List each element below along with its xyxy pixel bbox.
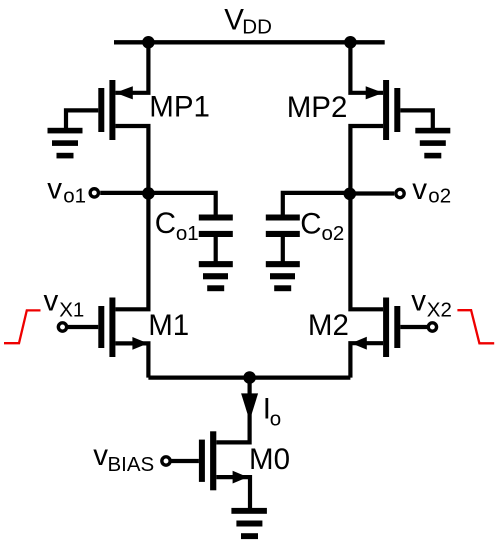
svg-text:v: v — [412, 173, 427, 206]
label M2 — [308, 309, 349, 342]
capacitor Co1 — [199, 215, 233, 238]
wire M1 gate to terminal — [68, 325, 99, 329]
svg-text:o1: o1 — [176, 222, 199, 245]
label M0 — [249, 443, 290, 476]
transistor MP2 gate bar — [394, 88, 400, 132]
wire VDD to MP2 source — [350, 42, 383, 93]
wire tail to M0 drain — [216, 378, 249, 443]
wire M2 gate to terminal — [400, 325, 427, 329]
wire node vo1 to M1 drain — [115, 193, 148, 309]
node VDD right junction — [344, 36, 357, 49]
node vo2 — [344, 188, 357, 201]
label vx1 — [44, 285, 85, 322]
waveform falling edge at vx2 — [457, 310, 494, 343]
wire VDD to MP1 source — [115, 42, 148, 93]
VDD label — [224, 4, 272, 39]
wire MP1 gate to ground — [66, 110, 98, 128]
wire M2 source to tail — [350, 343, 383, 377]
wire M0 source to ground — [216, 477, 250, 508]
svg-text:BIAS: BIAS — [108, 453, 155, 476]
label Co2 — [300, 207, 344, 245]
svg-text:DD: DD — [242, 16, 272, 39]
terminal vo2 — [396, 189, 404, 197]
svg-text:v: v — [47, 173, 62, 206]
label vbias — [93, 439, 154, 476]
svg-text:M2: M2 — [308, 309, 349, 342]
transistor MP2 channel bar — [383, 80, 389, 140]
svg-text:MP2: MP2 — [287, 91, 348, 124]
ground at MP1 gate — [48, 128, 83, 159]
svg-text:o: o — [270, 408, 281, 431]
current arrow Io — [241, 393, 258, 420]
svg-text:C: C — [300, 207, 321, 240]
transistor M2 gate bar — [394, 306, 400, 348]
ground at M0 source — [231, 508, 267, 539]
capacitor Co2 — [266, 215, 300, 238]
node tail — [243, 371, 256, 384]
label M1 — [148, 309, 189, 342]
wire vo1 terminal to node — [100, 191, 148, 195]
svg-text:v: v — [44, 285, 59, 318]
label vo2 — [412, 173, 451, 208]
wire node vo2 to terminal — [350, 191, 394, 195]
svg-text:X2: X2 — [427, 299, 452, 322]
svg-text:v: v — [411, 285, 426, 318]
terminal vbias — [162, 457, 170, 465]
svg-text:o2: o2 — [428, 185, 451, 208]
transistor M0 gate bar — [199, 440, 205, 482]
svg-text:v: v — [93, 439, 108, 472]
terminal vx1 — [58, 323, 66, 331]
wire Co2 to ground — [281, 237, 285, 262]
svg-text:V: V — [224, 4, 244, 37]
svg-text:M0: M0 — [249, 443, 290, 476]
transistor M1 source arrow — [132, 337, 148, 350]
svg-text:M1: M1 — [148, 309, 189, 342]
wire VDD rail — [114, 40, 385, 44]
transistor M0 channel bar — [210, 431, 216, 490]
ground at MP2 gate — [415, 128, 450, 159]
wire node vo1 to Co1 — [148, 193, 215, 215]
label MP2 — [287, 91, 348, 124]
label vx2 — [411, 285, 452, 322]
wire MP2 gate to ground — [400, 110, 433, 128]
wire tail rail — [148, 376, 350, 380]
label MP1 — [149, 91, 210, 124]
node VDD left junction — [142, 36, 155, 49]
transistor MP1 gate bar — [98, 88, 104, 132]
terminal vo1 — [90, 189, 98, 197]
svg-text:o1: o1 — [63, 185, 86, 208]
svg-text:o2: o2 — [322, 222, 345, 245]
label vo1 — [47, 173, 86, 208]
node vo1 — [142, 187, 155, 200]
transistor M2 source arrow — [351, 337, 367, 350]
wire Co1 to ground — [214, 237, 218, 262]
wire node vo2 to Co2 — [283, 193, 351, 215]
wire node vo2 to M2 drain — [350, 193, 383, 309]
svg-text:C: C — [155, 207, 176, 240]
wire M0 gate to terminal — [171, 459, 199, 463]
ground at Co1 — [199, 261, 233, 291]
terminal vx2 — [428, 323, 436, 331]
transistor MP2 source arrow — [366, 86, 383, 99]
wire MP2 drain to node vo2 — [350, 126, 383, 193]
waveform rising edge at vx1 — [4, 310, 41, 343]
transistor M2 channel bar — [383, 298, 389, 358]
wire M1 source to tail — [115, 343, 148, 377]
label Io — [263, 393, 281, 431]
ground at Co2 — [266, 261, 300, 291]
svg-text:X1: X1 — [59, 299, 84, 322]
wire MP1 drain to node vo1 — [115, 126, 148, 193]
transistor M1 channel bar — [109, 298, 115, 358]
transistor MP1 channel bar — [109, 80, 115, 140]
transistor MP1 source arrow — [115, 86, 132, 99]
transistor M1 gate bar — [98, 306, 104, 348]
svg-text:MP1: MP1 — [149, 91, 210, 124]
transistor M0 source arrow — [233, 471, 248, 484]
label Co1 — [155, 207, 199, 245]
